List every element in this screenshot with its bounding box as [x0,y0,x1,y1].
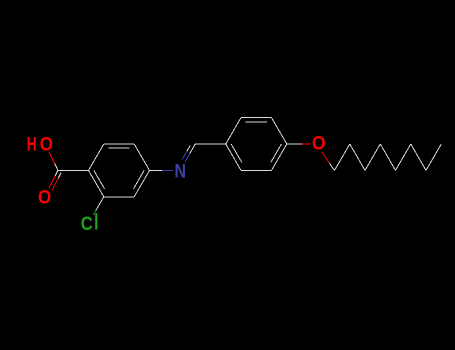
wire N blue half [162,169,173,171]
C=O second line white half [58,173,61,179]
wire NE1-E1 [134,144,149,170]
wire E2-SE2 (double bond main) [272,144,287,170]
C=N main line blue part [185,154,190,162]
wire C7-C8 [426,144,441,170]
wire O-C1 white part [330,164,335,171]
ring1 inner double line lower-right [134,170,145,189]
ring1 inner double line top [108,147,129,149]
ring2 inner double line top [246,121,267,123]
ring1 inner double line lower-left [94,170,105,189]
wire NE2-E2 [272,118,287,144]
ring2 inner double line lower-left [231,144,242,163]
wire CH-W2 [195,143,226,145]
wire E1-N white half [150,169,163,171]
C=N main line white part [190,144,196,154]
wire C-W1 (carboxyl C to ring) [58,169,89,171]
capacitor-like C=O double bond: main line white half [55,170,58,176]
svg-text:C: C [81,214,93,235]
wire O(H)-C white half [55,164,58,171]
wire C3-C4 [365,144,380,170]
wire Cl green half [93,210,96,215]
svg-text:O: O [312,134,326,155]
octyl chain [335,144,442,170]
ring2 inner double line lower-right [271,144,282,163]
svg-text:O: O [40,135,53,156]
C=O second line red half [52,178,58,190]
wire C5-C6 [396,144,411,170]
svg-text:O: O [38,187,51,208]
wire O-C1 red part [322,152,330,163]
wire NW2-NE2 (double bond main) [241,117,272,119]
wire E2-O white half [287,143,302,145]
wire E1-SE1 (double bond main) [134,170,149,196]
C=N second line blue part [182,151,187,159]
wire SE1-SW1 [104,196,134,198]
wire O red half [302,143,311,145]
wire C4-C5 [380,144,395,170]
wire O(H)-C red half (hydroxyl) [49,152,55,164]
wire SW1-W1 (double bond main) [89,170,104,196]
wire SE2-SW2 [241,169,272,171]
benzene ring 1 (chlorobenzoic ring) outer edges [89,144,150,197]
wire C1-C2 [335,144,350,170]
C=O main line red half [49,176,55,188]
wire C2-C3 [350,144,365,170]
wire C6-C7 [411,144,426,170]
wire W1-NW1 [89,144,104,170]
svg-text:H: H [27,135,37,156]
wire NW1-NE1 (double bond main) [104,143,134,145]
wire SW1-Cl white half [96,197,104,210]
svg-text:N: N [175,161,187,182]
benzene ring 2 (alkoxyphenyl ring) [226,118,287,171]
wire W2-NW2 [226,118,241,144]
C=N second line white part [187,145,190,151]
wire SW2-W2 (double bond main) [226,144,241,170]
